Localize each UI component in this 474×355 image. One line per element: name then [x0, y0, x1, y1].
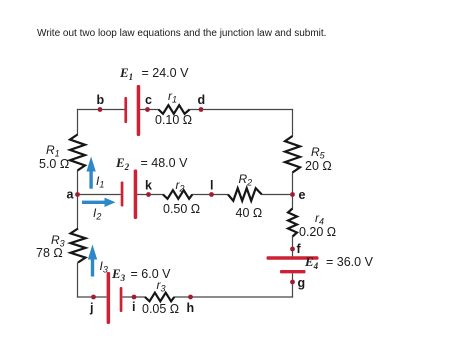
wire right mid (R5 to r4, through node e): [292, 172, 294, 208]
wire left mid (R1 to R3, through node a): [77, 170, 79, 228]
node e: [290, 192, 295, 197]
node d: [199, 107, 204, 112]
svg-text:= 36.0 V: = 36.0 V: [326, 255, 374, 269]
battery E2 negative plate (short bar): [121, 182, 124, 207]
svg-text:e: e: [299, 188, 306, 202]
svg-text:0.50 Ω: 0.50 Ω: [163, 202, 200, 216]
svg-text:b: b: [97, 93, 105, 107]
svg-text:d: d: [198, 93, 206, 107]
current arrow I3: [91, 259, 94, 277]
svg-text:c: c: [145, 93, 152, 107]
svg-text:40 Ω: 40 Ω: [236, 206, 263, 220]
node g: [290, 280, 295, 285]
svg-text:g: g: [298, 276, 306, 290]
wire middle (r2 to R2, through node l): [192, 194, 228, 196]
svg-text:k: k: [145, 179, 152, 193]
node a: [75, 192, 80, 197]
svg-text:78 Ω: 78 Ω: [36, 246, 63, 260]
current arrow I2: [82, 201, 105, 204]
battery E4 negative plate (short bar): [280, 270, 306, 273]
node l: [209, 192, 214, 197]
current arrow I1: [89, 171, 92, 189]
resistor R2: [228, 188, 262, 201]
svg-text:i: i: [132, 300, 135, 314]
node i: [132, 295, 137, 300]
resistor r4: [288, 209, 297, 237]
resistor r3: [145, 293, 174, 302]
node c: [145, 107, 150, 112]
svg-text:5.0 Ω: 5.0 Ω: [39, 157, 69, 171]
svg-text:0.20 Ω: 0.20 Ω: [299, 225, 336, 239]
node h: [188, 295, 193, 300]
svg-text:0.10 Ω: 0.10 Ω: [155, 113, 192, 127]
battery E1 positive plate (tall bar): [137, 85, 141, 136]
resistor R3: [71, 229, 86, 263]
wire top-left (corner b to E1): [77, 109, 125, 111]
battery E3 negative plate (short bar): [120, 287, 123, 312]
svg-text:= 24.0 V: = 24.0 V: [142, 66, 190, 80]
wire top-mid (E1 to r1): [140, 109, 159, 111]
svg-text:= 48.0 V: = 48.0 V: [141, 156, 189, 170]
wire bottom-right (r3 to bottom-right corner): [174, 296, 293, 298]
wire bottom-mid (E3 to r3): [123, 296, 146, 298]
svg-text:l: l: [210, 179, 213, 193]
battery E1 negative plate (short bar): [124, 97, 127, 123]
svg-text:= 6.0 V: = 6.0 V: [131, 267, 172, 281]
node j: [91, 295, 96, 300]
wire middle-left (a to E2): [78, 194, 121, 196]
node f: [290, 247, 295, 252]
svg-text:h: h: [187, 301, 195, 315]
wire left upper (corner to R1): [77, 109, 79, 135]
svg-text:0.05 Ω: 0.05 Ω: [142, 302, 179, 316]
battery E2 positive plate (tall bar): [134, 170, 138, 220]
battery E4 positive plate (long bar): [267, 256, 319, 260]
resistor r2: [163, 190, 192, 199]
wire right bottom (E4 to corner, through node g): [292, 273, 294, 297]
wire middle (E2 to r2, through node k): [137, 194, 164, 196]
wire right upper (corner to R5): [292, 109, 294, 136]
wire left lower (R3 to bottom-left corner): [77, 262, 79, 297]
battery E3 positive plate (tall bar): [107, 272, 111, 324]
svg-text:j: j: [89, 301, 93, 315]
node b: [98, 107, 103, 112]
wire bottom-left (corner j to E3): [77, 296, 107, 298]
svg-text:a: a: [67, 188, 75, 202]
wire right lower (r4 to E4, through node f): [292, 236, 294, 256]
resistor R5: [285, 136, 300, 173]
node k: [146, 192, 151, 197]
svg-text:Write out two loop law equatio: Write out two loop law equations and the…: [37, 28, 326, 39]
resistor r1: [159, 105, 190, 114]
wire top-right (r1 to top-right corner): [189, 109, 293, 111]
resistor R1: [70, 135, 85, 171]
svg-text:20 Ω: 20 Ω: [305, 159, 332, 173]
wire middle-right (R2 to node e): [262, 194, 293, 196]
